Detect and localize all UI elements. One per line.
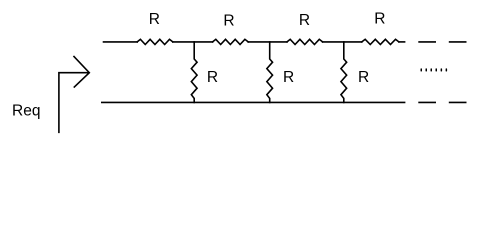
resistor R7 (shunt at node C) [341, 42, 347, 103]
svg-text:R: R [374, 11, 385, 28]
wire: bottom rail continuation dash 1 [419, 101, 435, 103]
wire: top rail between R2 and R3 through node B [248, 41, 287, 43]
ellipsis dots (continuation) [421, 68, 448, 71]
svg-text:Req: Req [12, 103, 40, 120]
wire: top rail between R1 and R2 through node A [173, 41, 213, 43]
wire: top rail right stub [399, 41, 405, 43]
resistor R2 (series, top rail) [213, 39, 249, 44]
svg-text:R: R [283, 69, 294, 86]
wire: top rail between R3 and R4 through node C [323, 41, 362, 43]
resistor R4 (series, top rail) [362, 39, 399, 44]
wire: bottom rail [102, 101, 405, 103]
wire: top rail continuation dash 1 [419, 41, 435, 43]
resistor R6 (shunt at node B) [267, 42, 273, 103]
svg-text:R: R [299, 12, 310, 29]
resistor R3 (series, top rail) [287, 39, 323, 44]
arrowhead of Req arrow [74, 57, 89, 88]
wire: top rail continuation dash 2 [450, 41, 466, 43]
svg-text:R: R [223, 12, 234, 29]
wire: top rail left segment [104, 41, 138, 43]
svg-text:R: R [358, 69, 369, 86]
resistor R5 (shunt at node A) [191, 42, 197, 103]
wire: bottom rail continuation dash 2 [450, 101, 466, 103]
resistor R1 (series, top rail) [137, 39, 173, 44]
svg-text:R: R [207, 69, 218, 86]
wire: Req arrow vertical + horizontal shaft [59, 73, 89, 133]
svg-text:R: R [149, 11, 160, 28]
